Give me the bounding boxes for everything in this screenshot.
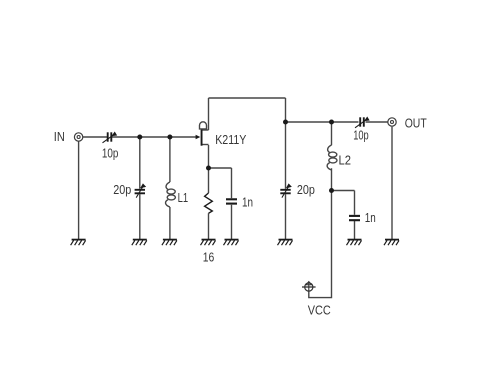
svg-text:1n: 1n [242,195,253,210]
svg-text:16: 16 [203,250,215,265]
svg-text:10p: 10p [353,128,369,143]
svg-text:20p: 20p [297,182,315,197]
svg-text:20p: 20p [113,182,131,197]
svg-text:K211Y: K211Y [215,132,247,147]
svg-text:L2: L2 [339,153,352,168]
svg-text:IN: IN [54,129,65,144]
svg-text:OUT: OUT [405,116,427,131]
svg-text:10p: 10p [102,146,119,161]
svg-text:1n: 1n [365,210,376,225]
svg-text:VCC: VCC [308,303,331,318]
svg-text:L1: L1 [178,190,189,205]
